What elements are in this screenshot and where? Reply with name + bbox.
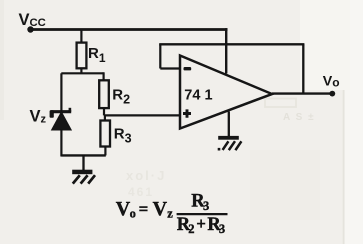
wire R1 bottom lead (80, 68, 82, 73)
op-amp U1 noninverting input marker (183, 109, 191, 117)
svg-text:2: 2 (188, 222, 194, 236)
svg-text:74 1: 74 1 (184, 88, 212, 104)
svg-text:461: 461 (128, 185, 154, 199)
wire bottom rail (61, 154, 106, 156)
svg-text:+: + (196, 214, 206, 233)
label Vz (30, 108, 47, 126)
op-amp U1 inverting input marker (184, 67, 192, 70)
wire noninverting input from R2 R3 junction node B (104, 114, 180, 116)
label R2 (112, 87, 130, 107)
svg-text:3: 3 (203, 199, 209, 213)
wire zener anode lead (60, 130, 62, 157)
wire inverting input lead (160, 67, 180, 69)
wire R1 top lead (80, 30, 82, 44)
wire zener cathode lead (60, 73, 62, 111)
label R1 (88, 45, 106, 65)
wire output line (272, 92, 333, 94)
ground op-amp (218, 112, 242, 151)
wire R3 top lead (104, 115, 106, 120)
op-amp U1 741 body (180, 56, 272, 129)
wire Vcc supply drop to op-amp V+ pin (225, 28, 227, 73)
label 741 (184, 88, 212, 104)
formula Vo = Vz R3/(R2+R3) (116, 192, 228, 236)
wire R2 bottom lead (103, 108, 105, 115)
svg-text:=: = (139, 199, 149, 218)
node Vo terminal dot (329, 91, 335, 97)
node Vo label (323, 74, 340, 90)
wire junction bar node A (61, 72, 103, 74)
svg-text:z: z (167, 207, 173, 221)
svg-text:V: V (116, 198, 131, 220)
ground left (72, 155, 95, 183)
svg-text:Vo: Vo (323, 74, 340, 90)
svg-text:o: o (130, 207, 136, 221)
resistor R2 (99, 80, 109, 108)
node Vcc label (19, 11, 46, 29)
wire feedback drop to output (302, 44, 304, 93)
wire feedback top run (159, 43, 304, 45)
wire feedback riser to inverting input (159, 44, 161, 68)
svg-text:xol·J: xol·J (126, 168, 166, 183)
wire R3 bottom lead (104, 147, 106, 156)
wire Vcc rail (31, 28, 228, 31)
resistor R1 (77, 43, 87, 69)
wire R2 top lead (102, 72, 104, 80)
svg-text:A S ±: A S ± (283, 112, 315, 123)
label R3 (114, 126, 132, 146)
zener diode Vz (50, 108, 72, 130)
svg-text:3: 3 (219, 222, 225, 236)
resistor R3 (100, 121, 110, 147)
node Vcc terminal dot (27, 26, 33, 32)
svg-text:V: V (153, 198, 168, 220)
